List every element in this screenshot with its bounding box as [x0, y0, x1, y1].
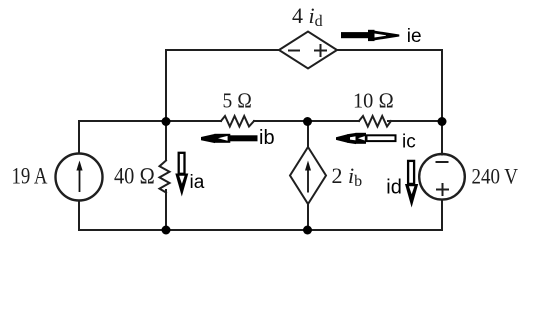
svg-text:id: id	[386, 177, 402, 199]
svg-text:2 ib: 2 ib	[332, 163, 363, 190]
svg-text:40 Ω: 40 Ω	[114, 164, 155, 189]
svg-text:ia: ia	[190, 172, 205, 193]
svg-text:ib: ib	[259, 127, 275, 149]
svg-text:240 V: 240 V	[472, 164, 519, 189]
svg-text:4 id: 4 id	[292, 3, 323, 30]
svg-text:5 Ω: 5 Ω	[223, 89, 253, 113]
svg-text:ie: ie	[407, 26, 422, 47]
svg-text:ic: ic	[402, 132, 416, 153]
svg-text:10 Ω: 10 Ω	[353, 89, 394, 113]
svg-text:19 A: 19 A	[12, 164, 48, 189]
